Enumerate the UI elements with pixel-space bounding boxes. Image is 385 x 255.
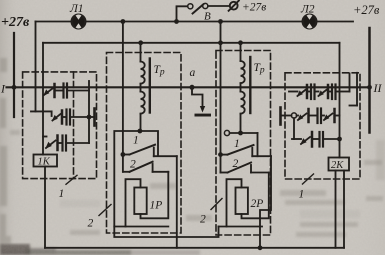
wire: contact2 loop to coil bottom bbox=[141, 172, 169, 219]
wire: top lamp bus y=21.5 bbox=[36, 21, 354, 23]
contact box 2К bbox=[329, 158, 350, 171]
wire: right box top-right stub bbox=[350, 73, 358, 106]
transformer Тр (left): primary bbox=[141, 43, 145, 92]
capacitor C2 (left row2) bbox=[67, 110, 90, 125]
dashed box: left unit bbox=[23, 72, 97, 179]
label 2 (middle-left unit pointer) bbox=[99, 205, 111, 216]
wire: bottom link y237 bbox=[114, 227, 218, 238]
label 1 (left unit pointer) bbox=[66, 175, 77, 184]
svg-text:Л1: Л1 bbox=[69, 3, 84, 15]
wire: right +27в drop bbox=[368, 28, 371, 133]
svg-text:1: 1 bbox=[299, 189, 305, 201]
svg-text:2Р: 2Р bbox=[251, 198, 264, 210]
svg-text:2: 2 bbox=[200, 214, 206, 226]
wire: 1К to bottom rail bbox=[44, 167, 46, 248]
contact 2 (relay unit 1) bbox=[123, 162, 168, 172]
terminal +27в (top middle) bbox=[229, 1, 239, 11]
wire: bottom rail bbox=[45, 247, 344, 249]
capacitor C1 (left row1) bbox=[64, 84, 90, 98]
svg-text:2: 2 bbox=[233, 158, 239, 170]
transistor Q4 (right row1 a) bbox=[289, 85, 307, 98]
transistor Q5 (right row1 b) bbox=[316, 85, 329, 98]
svg-text:2: 2 bbox=[130, 159, 136, 171]
relay unit 2 input circle bbox=[224, 130, 229, 135]
main line I-II y=87.3 bbox=[7, 86, 370, 88]
wire: contact1 output to bottom rail (right) bbox=[260, 156, 271, 248]
switch В bbox=[177, 3, 230, 21]
label 1 (right unit pointer) bbox=[303, 174, 314, 184]
wire: drop bus1 to relay unit 2 contacts bbox=[220, 22, 222, 173]
junction on lamp bus bbox=[121, 19, 126, 24]
svg-text:+27в: +27в bbox=[1, 15, 30, 30]
wire: coil top loop (right) bbox=[227, 179, 242, 226]
transistor Q1 (left row1) bbox=[43, 84, 62, 97]
wire: 2К to bottom rail (two leads) bbox=[335, 171, 337, 248]
wire: drop from lamp bus to row2 of left unit bbox=[35, 22, 37, 112]
relay unit 1 frame bbox=[114, 131, 168, 227]
transformer Тр (right): secondary bbox=[241, 92, 245, 134]
node: open circle right row2 bbox=[291, 113, 296, 118]
svg-text:2: 2 bbox=[88, 218, 94, 230]
transformer Тр (left): secondary bbox=[141, 92, 145, 132]
wire: coil top loop bbox=[126, 179, 141, 226]
transistor Q7 (right row2 b) bbox=[322, 109, 340, 122]
dashed box: right unit bbox=[285, 73, 360, 179]
wire: left coupling riser bbox=[88, 81, 90, 143]
transformer Тр (right): primary bbox=[241, 43, 245, 92]
dashed divider in left unit bbox=[73, 72, 75, 179]
wire: contact1 output down to bottom rail bbox=[176, 156, 178, 248]
capacitor C6 (right row2 a) bbox=[318, 109, 322, 124]
contact 1 (relay unit 1) bbox=[123, 145, 177, 157]
dashed box: middle-right unit bbox=[216, 51, 271, 236]
svg-text:В: В bbox=[204, 11, 211, 23]
ground arrow at node a bbox=[192, 87, 211, 116]
wire: unit2 bottom edge bbox=[219, 226, 263, 228]
capacitor C4 (right row1 a) bbox=[308, 85, 315, 100]
svg-text:1: 1 bbox=[234, 138, 240, 150]
contact 1 (relay unit 2) bbox=[221, 145, 272, 156]
relay coil 1Р bbox=[134, 188, 146, 215]
contact 2 (relay unit 2) bbox=[221, 163, 269, 173]
svg-text:1Р: 1Р bbox=[150, 200, 163, 212]
dashed box: middle-left unit bbox=[107, 53, 182, 234]
label 2 (middle-right unit pointer) bbox=[211, 199, 222, 210]
plate terminal at left box edge bbox=[89, 109, 95, 126]
svg-text:+27в: +27в bbox=[242, 2, 266, 14]
capacitor C7 (right row3) bbox=[320, 132, 340, 147]
svg-text:а: а bbox=[190, 67, 196, 79]
wire: left feed to 1К (from second bus) bbox=[42, 43, 44, 155]
svg-text:2К: 2К bbox=[331, 160, 344, 171]
transistor Q3 (left row3) bbox=[43, 136, 62, 151]
wire: link row2 circle to row3 (right box) bbox=[293, 118, 295, 139]
plate terminal at right box edge bbox=[281, 108, 292, 125]
wire: unit2 top bbox=[230, 132, 258, 134]
wire: right feed to 2К (from second bus) bbox=[339, 43, 341, 158]
svg-text:1: 1 bbox=[59, 188, 65, 200]
svg-text:II: II bbox=[373, 81, 383, 95]
lamp Л2 bbox=[303, 15, 317, 29]
svg-text:1: 1 bbox=[133, 135, 139, 147]
capacitor C5 (right row1 b) bbox=[329, 74, 350, 100]
capacitor C3 (left row3) bbox=[63, 136, 90, 151]
wire: contact2 loop to coil bottom (right) bbox=[242, 173, 269, 219]
svg-text:+27в: +27в bbox=[353, 3, 380, 17]
transistor Q2 (left row2) bbox=[31, 111, 66, 124]
relay coil 2Р bbox=[236, 188, 248, 215]
wire: +27в input stub left bbox=[13, 33, 15, 117]
transformer Тр (left): core bbox=[149, 59, 151, 113]
transistor Q8 (right row3) bbox=[292, 132, 319, 147]
node: coupling junction left bbox=[87, 115, 92, 120]
contact box 1К bbox=[34, 155, 58, 167]
wire: second bus y=42.8 bbox=[43, 42, 340, 44]
transistor Q6 (right row2 a) bbox=[297, 109, 317, 122]
svg-text:Л2: Л2 bbox=[300, 4, 315, 16]
lamp Л1 bbox=[72, 15, 86, 29]
transformer Тр (right): core bbox=[249, 57, 251, 113]
wire: drop bus1 to relay unit 1 contacts bbox=[122, 22, 124, 172]
